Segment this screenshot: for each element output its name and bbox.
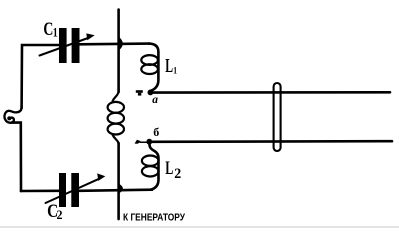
label C2 [47,200,62,222]
arrow mark at node a [136,90,143,95]
wire: bottom horizontal from C2 to L2 [80,190,153,191]
node b (junction dot) [146,139,152,145]
wire: left side of loop (top corner, down to twist) [22,45,59,108]
center coupling coil on vertical line [108,89,124,146]
variable arrow of C1 [40,33,95,55]
junction nub where bottom wire meets vertical line [118,183,123,194]
svg-text:a: a [152,94,158,106]
svg-text:L: L [165,56,173,77]
main vertical line, lower segment [117,143,120,219]
label L1 [165,56,177,77]
svg-text:К ГЕНЕРАТОРУ: К ГЕНЕРАТОРУ [123,212,185,223]
capacitor C1 (plates) [59,28,80,63]
svg-text:C: C [43,18,53,40]
feeder line top [150,91,390,94]
svg-text:б: б [153,125,159,139]
wire: top horizontal from C1 to L1 corner [80,42,150,45]
feeder line bottom [149,140,392,143]
svg-text:1: 1 [53,26,58,39]
svg-text:2: 2 [174,166,181,182]
variable arrow of C2 [46,173,106,203]
scan artifact: faint streak at bottom [0,226,399,228]
svg-text:1: 1 [173,64,177,75]
label C1 [43,18,58,40]
label L2 [165,158,181,182]
wire: bottom-left corner to C2 [21,190,60,193]
inductor L2 (from node b down through loops to bottom wire) [142,144,159,190]
main vertical line (to generator), upper segment [117,10,120,93]
node a (junction dot) [148,90,154,96]
arrow mark at node b [135,140,148,144]
inductor L1 (corner, loops, down to node a) [141,44,158,91]
feeder insulator (oval) [274,83,281,151]
svg-text:2: 2 [57,208,63,222]
twist/loop in left wire [4,107,21,123]
svg-text:L: L [165,158,173,178]
capacitor C2 (plates) [59,173,79,207]
junction nub where top wire meets vertical line [118,36,123,51]
